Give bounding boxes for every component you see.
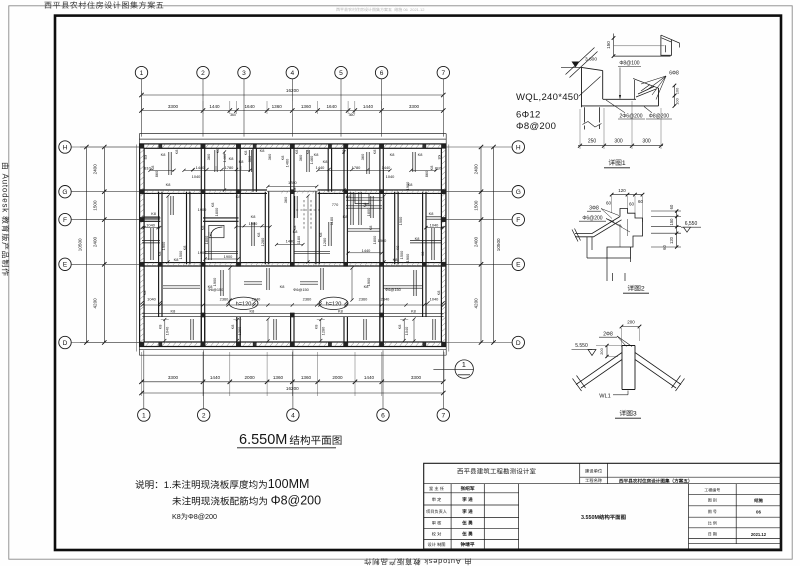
- svg-text:K8: K8: [229, 156, 234, 161]
- plan eave lines bottom: [139, 349, 446, 351]
- plan eave lines top: [139, 133, 446, 135]
- svg-text:详图1: 详图1: [608, 159, 626, 167]
- svg-text:1500: 1500: [474, 200, 479, 211]
- svg-text:K8: K8: [429, 211, 434, 216]
- svg-text:K8: K8: [305, 150, 310, 155]
- grid circle 4 bottom: [287, 409, 299, 421]
- svg-text:1280: 1280: [260, 237, 265, 246]
- right overall dimension 10500: [493, 147, 495, 343]
- svg-text:K8: K8: [239, 159, 244, 164]
- svg-text:图 别: 图 别: [708, 498, 717, 503]
- svg-text:2360: 2360: [303, 297, 312, 302]
- svg-text:3300: 3300: [411, 375, 422, 380]
- svg-text:1900: 1900: [378, 238, 387, 243]
- svg-text:K8: K8: [151, 211, 156, 216]
- svg-text:建设单位: 建设单位: [585, 469, 603, 474]
- svg-text:360: 360: [247, 155, 252, 162]
- detail1 slab bottom line: [582, 105, 659, 107]
- svg-text:1900: 1900: [161, 241, 166, 250]
- svg-text:1040: 1040: [192, 174, 201, 179]
- svg-text:360: 360: [349, 113, 355, 117]
- interior dim line mid rooms: [142, 227, 159, 229]
- bottom overall dimension 16200: [142, 392, 444, 394]
- svg-text:Φ6@150: Φ6@150: [385, 287, 402, 292]
- svg-text:1040: 1040: [404, 326, 409, 335]
- interior dim line top rooms: [150, 169, 174, 171]
- svg-text:1500: 1500: [399, 250, 404, 259]
- svg-text:1800: 1800: [372, 235, 377, 244]
- column blocks: [140, 144, 144, 148]
- svg-text:1040: 1040: [147, 297, 156, 302]
- svg-text:60: 60: [606, 201, 612, 206]
- detail1 slab top line: [603, 98, 636, 100]
- wall left mid: [186, 192, 188, 265]
- svg-text:1040: 1040: [165, 326, 170, 335]
- svg-text:2: 2: [201, 70, 205, 77]
- svg-text:1440: 1440: [316, 165, 325, 170]
- svg-text:1360: 1360: [301, 375, 312, 380]
- grid circle 4 top: [286, 66, 298, 78]
- svg-text:1900: 1900: [366, 277, 371, 286]
- detail1 right dim 100/100: [673, 86, 675, 107]
- svg-text:WL1: WL1: [599, 394, 611, 400]
- svg-text:6.550M结构平面图: 6.550M结构平面图: [239, 432, 342, 448]
- bottom room vertical dim brackets: [164, 320, 166, 341]
- detail 1: WQL wall section: [516, 34, 679, 168]
- svg-text:设计 制图: 设计 制图: [428, 542, 446, 547]
- svg-text:2: 2: [202, 412, 206, 419]
- svg-text:K8: K8: [292, 188, 297, 193]
- svg-text:360: 360: [283, 196, 288, 203]
- h=120 label oval: [319, 297, 348, 309]
- h=120 label oval: [229, 297, 258, 309]
- svg-text:300: 300: [614, 139, 623, 145]
- svg-text:150: 150: [669, 218, 674, 226]
- svg-text:西平县建筑工程勘测设计室: 西平县建筑工程勘测设计室: [457, 468, 536, 476]
- svg-text:K8: K8: [314, 325, 319, 330]
- detail1 wall left line: [581, 67, 583, 107]
- short walls below beam line: [200, 317, 202, 342]
- beam line across lower rooms: [142, 313, 443, 315]
- detail2 cornice profile: [575, 217, 622, 237]
- level mark 3.600: [561, 66, 582, 68]
- svg-text:4: 4: [290, 70, 294, 77]
- wall on grid 6: [379, 148, 381, 342]
- svg-text:16200: 16200: [286, 88, 299, 93]
- svg-text:Φ8@100: Φ8@100: [619, 61, 639, 67]
- svg-text:1360: 1360: [301, 104, 312, 109]
- svg-text:4200: 4200: [93, 298, 98, 309]
- detail3 200 vertical dim: [606, 346, 608, 357]
- svg-text:K8: K8: [200, 226, 205, 231]
- stair/ramp symbol: [209, 225, 224, 237]
- svg-text:1500: 1500: [93, 200, 98, 211]
- svg-text:室 主 任: 室 主 任: [429, 486, 445, 491]
- svg-text:7: 7: [441, 412, 445, 419]
- row circle E right: [512, 258, 524, 270]
- svg-text:1780: 1780: [352, 165, 361, 170]
- wall on row G: [142, 189, 267, 191]
- left overall dimension 10500: [85, 147, 87, 343]
- svg-text:K8: K8: [182, 246, 187, 251]
- svg-text:60: 60: [629, 202, 635, 207]
- grid circle 6 top: [375, 66, 387, 78]
- svg-text:K8: K8: [418, 152, 423, 157]
- svg-text:K8: K8: [362, 203, 367, 208]
- svg-text:200: 200: [627, 320, 635, 325]
- svg-text:1460: 1460: [309, 155, 314, 164]
- svg-text:K8: K8: [343, 214, 348, 219]
- detail3 200 dim: [622, 326, 640, 328]
- row circle E left: [59, 258, 71, 270]
- svg-text:K8: K8: [411, 308, 416, 313]
- svg-text:由 Autodesk 教育版产品制作: 由 Autodesk 教育版产品制作: [363, 557, 471, 566]
- wall stub right of centre: [327, 148, 329, 192]
- svg-text:2Φ8: 2Φ8: [603, 332, 613, 338]
- svg-text:120: 120: [618, 188, 626, 193]
- interior dim line top rooms: [318, 169, 390, 171]
- svg-text:K8: K8: [415, 236, 420, 241]
- svg-text:360: 360: [360, 153, 365, 160]
- detail1 foundation stub: [583, 107, 585, 122]
- svg-text:K8: K8: [346, 194, 351, 199]
- svg-text:K8: K8: [236, 194, 241, 199]
- svg-text:6: 6: [381, 412, 385, 419]
- svg-text:h=120: h=120: [236, 301, 252, 307]
- detail1 slab right end: [658, 88, 660, 106]
- wall on grid 2: [200, 148, 202, 342]
- interior vertical dim lines: [224, 152, 226, 190]
- svg-text:3Φ8: 3Φ8: [589, 206, 599, 212]
- svg-text:2400: 2400: [474, 164, 479, 175]
- svg-text:日 期: 日 期: [708, 532, 717, 537]
- svg-text:4200: 4200: [474, 298, 479, 309]
- row circle D left: [59, 336, 71, 348]
- svg-text:K8: K8: [260, 148, 265, 153]
- centre 1440 dim line: [277, 244, 304, 246]
- svg-text:图 号: 图 号: [708, 509, 717, 514]
- detail2 right level dims: [651, 210, 681, 212]
- svg-text:K8: K8: [390, 152, 395, 157]
- svg-text:60: 60: [662, 245, 667, 250]
- wall hatching: [141, 144, 144, 148]
- interior dim line mid rooms: [426, 227, 444, 229]
- svg-text:7: 7: [441, 70, 445, 77]
- svg-text:K8: K8: [292, 226, 297, 231]
- svg-text:3,600: 3,600: [585, 57, 597, 63]
- row circle H right: [512, 141, 524, 153]
- svg-text:审 定: 审 定: [432, 497, 442, 502]
- svg-text:K8: K8: [161, 152, 166, 157]
- svg-text:详图2: 详图2: [627, 285, 645, 293]
- svg-text:1500: 1500: [398, 216, 403, 225]
- svg-text:1180: 1180: [329, 216, 334, 225]
- svg-text:F: F: [516, 217, 520, 224]
- grid circle 3 top: [238, 66, 250, 78]
- detail2 top dim line: [612, 194, 643, 196]
- svg-text:1500: 1500: [178, 250, 183, 259]
- svg-text:100: 100: [674, 97, 679, 104]
- svg-text:1900: 1900: [198, 250, 207, 255]
- svg-text:K8为Φ8@200: K8为Φ8@200: [172, 512, 217, 521]
- grid circle 1 top: [135, 66, 147, 78]
- grid circle 2 bottom: [198, 409, 210, 421]
- detail1 150 dim: [613, 34, 615, 57]
- svg-text:6,550: 6,550: [685, 221, 698, 227]
- svg-text:钟靖平: 钟靖平: [460, 541, 474, 547]
- detail1 gutter hook: [661, 35, 672, 55]
- svg-text:1180: 1180: [296, 235, 301, 244]
- dense duct/beam cluster right of centre: [350, 192, 352, 225]
- svg-text:1360: 1360: [272, 104, 283, 109]
- wall stub left of centre: [252, 148, 254, 192]
- right dimension chain 2400/1500/2400/4200: [480, 147, 482, 343]
- svg-text:16200: 16200: [286, 386, 299, 391]
- wall right of centre mid: [315, 192, 317, 265]
- interior dim line top rooms: [411, 169, 436, 171]
- svg-text:1900: 1900: [224, 254, 233, 259]
- svg-text:K8: K8: [166, 182, 171, 187]
- svg-text:K8: K8: [158, 325, 163, 330]
- left dimension chain 2400/1500/2400/4200: [103, 147, 105, 343]
- svg-text:1440: 1440: [382, 165, 391, 170]
- svg-text:120: 120: [669, 236, 674, 244]
- svg-text:G: G: [62, 189, 67, 196]
- row circle D right: [512, 336, 524, 348]
- svg-text:李 进: 李 进: [461, 508, 473, 514]
- svg-text:伍 勇: 伍 勇: [461, 519, 473, 525]
- outer wall inner line: [144, 148, 441, 342]
- svg-text:Φ6@200: Φ6@200: [582, 216, 602, 222]
- svg-text:校 对: 校 对: [432, 531, 442, 536]
- svg-text:1040: 1040: [430, 297, 439, 302]
- svg-text:200: 200: [599, 347, 604, 354]
- svg-text:K8: K8: [210, 203, 215, 208]
- svg-text:K8: K8: [280, 284, 285, 289]
- grid circle 5 top: [335, 66, 347, 78]
- plan eave lines sides: [136, 145, 138, 352]
- svg-text:F: F: [63, 217, 67, 224]
- svg-text:K8: K8: [318, 233, 323, 238]
- svg-text:1440: 1440: [209, 104, 220, 109]
- svg-text:2340: 2340: [252, 297, 261, 302]
- svg-text:360: 360: [230, 113, 236, 117]
- svg-text:1: 1: [140, 70, 144, 77]
- svg-text:1440: 1440: [362, 248, 371, 253]
- detail1 wall right line: [602, 71, 604, 99]
- svg-text:h=120: h=120: [326, 301, 342, 307]
- svg-text:K8: K8: [420, 252, 425, 257]
- svg-text:3300: 3300: [409, 104, 420, 109]
- svg-text:K8: K8: [436, 291, 441, 296]
- row circle F right: [512, 213, 524, 225]
- svg-text:6: 6: [380, 70, 384, 77]
- svg-text:1800: 1800: [214, 207, 219, 216]
- svg-text:K8: K8: [372, 150, 377, 155]
- svg-text:Φ6@150: Φ6@150: [293, 287, 310, 292]
- detail 3: ridge WL1: [572, 320, 685, 419]
- svg-text:300: 300: [642, 139, 651, 145]
- svg-text:100: 100: [674, 87, 679, 94]
- svg-text:2360: 2360: [220, 297, 229, 302]
- svg-text:1280: 1280: [237, 326, 242, 335]
- svg-text:2400: 2400: [93, 164, 98, 175]
- svg-text:1900: 1900: [198, 207, 207, 212]
- row circle F left: [59, 213, 71, 225]
- svg-text:K8: K8: [171, 308, 176, 313]
- detail1 bottom dims: [578, 145, 663, 147]
- detail3 ridge post: [622, 346, 635, 390]
- detail1 wall top line: [582, 67, 603, 70]
- svg-text:H: H: [63, 144, 68, 151]
- svg-text:10500: 10500: [78, 238, 83, 251]
- svg-text:E: E: [63, 262, 68, 269]
- svg-text:360: 360: [206, 153, 211, 160]
- svg-text:张绍军: 张绍军: [460, 485, 474, 491]
- svg-text:10500: 10500: [496, 238, 501, 251]
- svg-text:由 Autodesk 教育版产品制作: 由 Autodesk 教育版产品制作: [1, 162, 10, 277]
- svg-text:K8: K8: [323, 159, 328, 164]
- svg-text:K8: K8: [250, 308, 255, 313]
- svg-text:1280: 1280: [321, 326, 326, 335]
- svg-text:结施: 结施: [753, 498, 763, 503]
- svg-text:4: 4: [291, 412, 295, 419]
- svg-text:K8: K8: [393, 257, 398, 262]
- svg-text:1: 1: [462, 360, 466, 369]
- title block table: [424, 463, 781, 549]
- wall near grid 5: [343, 148, 345, 264]
- svg-text:K8: K8: [338, 308, 343, 313]
- svg-text:K8: K8: [243, 151, 248, 156]
- svg-text:1040: 1040: [146, 223, 155, 228]
- small interior dimension ticks: [191, 168, 194, 171]
- svg-text:K8: K8: [314, 152, 319, 157]
- svg-text:K8: K8: [368, 226, 373, 231]
- row circle G left: [59, 186, 71, 198]
- svg-text:1440: 1440: [286, 239, 295, 244]
- svg-text:2400: 2400: [474, 236, 479, 247]
- svg-text:1800: 1800: [366, 207, 371, 216]
- svg-text:3300: 3300: [168, 375, 179, 380]
- svg-text:K8: K8: [215, 149, 220, 154]
- outer wall outer line: [140, 144, 446, 347]
- svg-text:3: 3: [242, 70, 246, 77]
- svg-text:K8: K8: [397, 325, 402, 330]
- svg-text:1440: 1440: [210, 375, 221, 380]
- svg-text:详图3: 详图3: [619, 410, 637, 418]
- svg-text:西平县农村住房设计图集（方案五）: 西平县农村住房设计图集（方案五）: [619, 477, 693, 483]
- svg-text:60: 60: [669, 204, 674, 209]
- svg-text:H: H: [516, 144, 521, 151]
- svg-text:西平县农村住房设计图集方案五: 西平县农村住房设计图集方案五: [44, 1, 164, 10]
- detail3 roof slopes: [576, 353, 681, 389]
- svg-text:K8: K8: [142, 291, 147, 296]
- svg-text:K8: K8: [174, 150, 179, 155]
- svg-text:西平县农村住房设计图集方案五 结施 06 2021.12: 西平县农村住房设计图集方案五 结施 06 2021.12: [336, 7, 425, 12]
- wall inner right room: [422, 192, 424, 317]
- svg-text:K8: K8: [251, 214, 256, 219]
- interior dim row above beam line: [142, 304, 443, 306]
- svg-text:770: 770: [332, 202, 339, 207]
- svg-text:Φ8@200: Φ8@200: [649, 114, 669, 120]
- svg-text:1360: 1360: [273, 375, 284, 380]
- wall on row E: [142, 262, 443, 264]
- svg-text:3.550M结构平面图: 3.550M结构平面图: [581, 514, 627, 521]
- svg-text:E: E: [516, 262, 521, 269]
- interior dim line mid rooms: [205, 258, 238, 260]
- svg-text:1900: 1900: [249, 221, 258, 226]
- svg-text:5.550: 5.550: [575, 343, 588, 349]
- svg-text:工程编号: 工程编号: [704, 488, 720, 493]
- wall on grid 3: [236, 148, 238, 264]
- svg-text:伍 勇: 伍 勇: [461, 530, 473, 536]
- svg-text:1: 1: [142, 412, 146, 419]
- section cut marker 1: [433, 368, 473, 370]
- svg-text:360: 360: [267, 153, 272, 160]
- svg-text:K8: K8: [437, 155, 442, 160]
- svg-text:6Φ12: 6Φ12: [516, 110, 541, 121]
- svg-text:1440: 1440: [364, 375, 375, 380]
- beam across G gap with 1780 dim: [267, 190, 318, 192]
- svg-text:1900: 1900: [405, 253, 410, 262]
- svg-text:3300: 3300: [168, 104, 179, 109]
- svg-text:2000: 2000: [244, 375, 255, 380]
- svg-text:360: 360: [298, 154, 303, 161]
- interior beams: [168, 152, 170, 175]
- interior dim line mid rooms: [348, 252, 382, 254]
- grid circle 1 bottom: [138, 409, 150, 421]
- svg-text:1900: 1900: [405, 181, 410, 190]
- svg-text:K8: K8: [256, 233, 261, 238]
- wall on grid 4: [290, 148, 292, 264]
- svg-text:1040: 1040: [386, 174, 395, 179]
- wall left of centre mid: [264, 192, 266, 265]
- svg-text:1440: 1440: [196, 165, 205, 170]
- svg-text:2021.12: 2021.12: [751, 532, 767, 537]
- interior dim line mid rooms: [236, 226, 270, 228]
- svg-text:K8: K8: [294, 150, 299, 155]
- svg-text:WQL,240*450: WQL,240*450: [516, 92, 579, 103]
- svg-text:工程名称: 工程名称: [585, 478, 603, 483]
- svg-text:810: 810: [435, 166, 442, 171]
- svg-text:2400: 2400: [93, 236, 98, 247]
- svg-text:1780: 1780: [288, 180, 297, 185]
- svg-text:1040: 1040: [430, 223, 439, 228]
- svg-text:说明：1.未注明现浇板厚度均为100MM: 说明：1.未注明现浇板厚度均为100MM: [135, 477, 309, 491]
- svg-text:比 例: 比 例: [708, 521, 717, 526]
- svg-text:1640: 1640: [326, 104, 337, 109]
- svg-text:2000: 2000: [332, 375, 343, 380]
- svg-text:5: 5: [339, 70, 343, 77]
- detail 2: eave cornice section: [572, 188, 701, 293]
- svg-text:1440: 1440: [363, 104, 374, 109]
- svg-text:860: 860: [154, 170, 159, 177]
- svg-text:审 核: 审 核: [432, 520, 442, 525]
- wall right mid: [394, 192, 396, 265]
- svg-text:2Φ6@200: 2Φ6@200: [620, 114, 643, 120]
- wall on row F (partial): [142, 217, 160, 219]
- interior dim line top rooms: [184, 169, 250, 171]
- svg-text:Φ8@200: Φ8@200: [516, 121, 556, 132]
- top segment dimensions: [142, 110, 444, 112]
- row circle G right: [512, 186, 524, 198]
- bottom segment dimensions: [142, 381, 444, 383]
- row circle H left: [59, 141, 71, 153]
- svg-text:D: D: [63, 340, 68, 347]
- svg-text:K8: K8: [395, 246, 400, 251]
- svg-text:K8: K8: [429, 166, 434, 171]
- svg-text:2360: 2360: [359, 297, 368, 302]
